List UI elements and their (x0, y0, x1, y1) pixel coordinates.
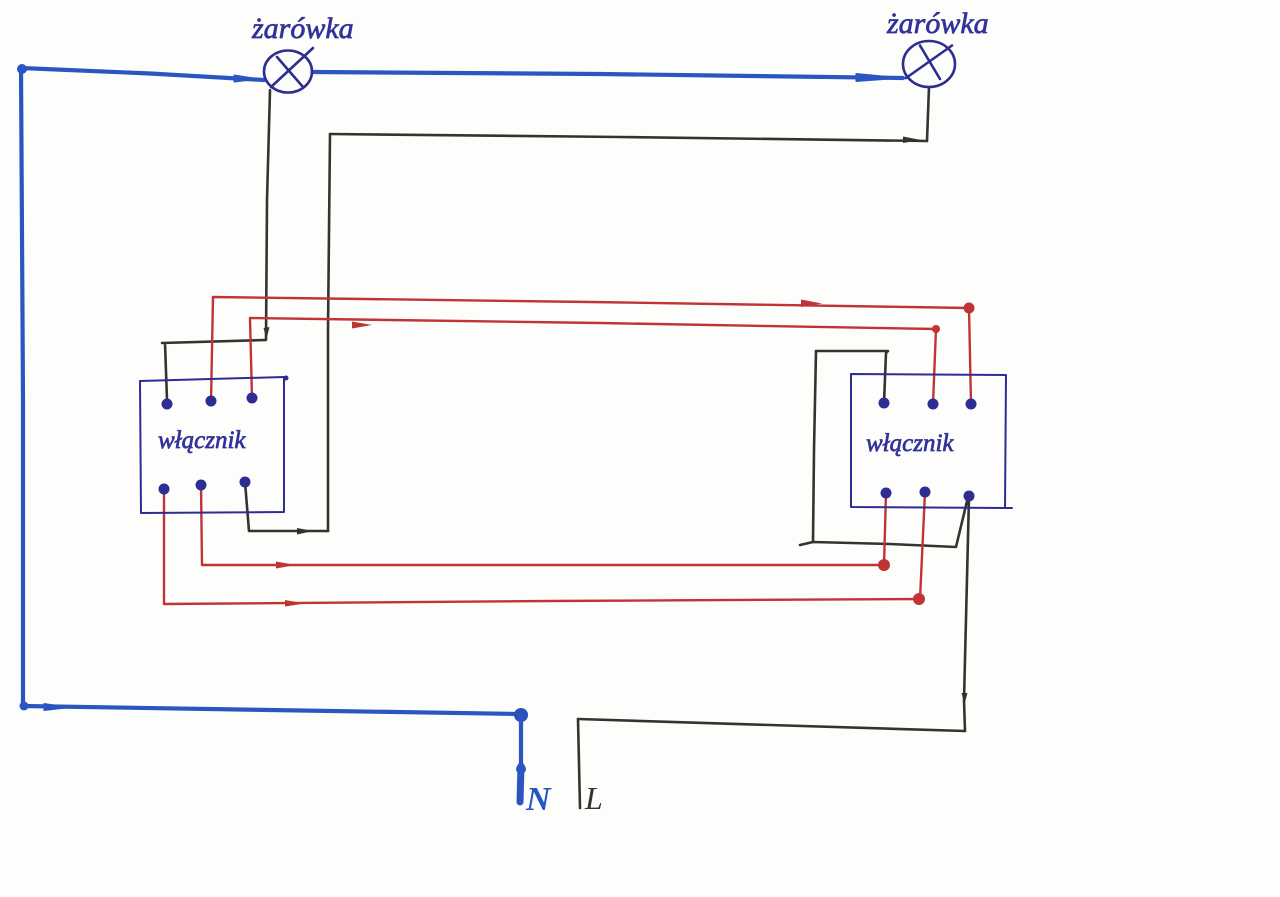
wire black: lamp E1 drop (264, 90, 271, 339)
lamp E1 symbol (264, 48, 313, 93)
wire L black: terminal stub vertical (578, 719, 580, 808)
wire red: S1 T3 up, across, down to S2 T2 (250, 318, 936, 404)
wire N blue: left vertical (21, 68, 23, 705)
node red junction at S2 T3 corner (964, 303, 975, 314)
switch S2 terminal B3 (964, 491, 975, 502)
switch S2 terminal B1 (881, 488, 892, 499)
wire black: long horizontal from E2 to mid riser (330, 134, 927, 143)
svg-text:żarówka: żarówka (886, 7, 989, 40)
switch S1 terminal T1 (162, 399, 173, 410)
wire black: mid riser x=330 down (328, 134, 330, 531)
switch S2 terminal T2 (928, 399, 939, 410)
wire black: bottom-left link to switch S1 terminal 6 (245, 482, 328, 535)
svg-text:włącznik: włącznik (158, 427, 246, 454)
wire black: link to switch S1 terminal 1 (162, 340, 266, 400)
wire N blue: left feed horizontal to lamp E1 (21, 68, 264, 82)
wire L black: bottom horizontal to right riser (578, 719, 965, 731)
wire L black: right riser up to switch S2 bottom-right terminal (962, 497, 970, 731)
switch S1 terminal B2 (196, 480, 207, 491)
wire red: S1 B2 down, across, up to S2 B1 (201, 485, 886, 569)
switch S2 box (851, 374, 1012, 508)
node N junction dot (514, 708, 528, 722)
node S1 box corner dot (284, 376, 289, 381)
switch S1 terminal B3 (240, 477, 251, 488)
wire black: switch S2 loop top (816, 351, 888, 403)
switch S1 box (140, 377, 284, 513)
switch S1 terminal T2 (206, 396, 217, 407)
switch S1 terminal B1 (159, 484, 170, 495)
switch S2 terminal T3 (966, 399, 977, 410)
svg-text:żarówka: żarówka (251, 12, 354, 45)
wire red: S1 B1 down, across bottom, up to S2 B2 (164, 489, 925, 607)
node red junction at S2 T2 corner (932, 325, 940, 333)
node red junction at S2 B1 corner (878, 559, 890, 571)
switch S1 terminal T3 (247, 393, 258, 404)
node red junction lower-right (913, 593, 925, 605)
lamp E2 symbol (903, 41, 955, 87)
wire black: switch S2 loop left vertical (813, 351, 816, 541)
wire red: S1 T2 up, across, down to S2 T3 (211, 297, 971, 404)
svg-text:N: N (525, 781, 552, 818)
svg-text:włącznik: włącznik (866, 430, 954, 457)
wire N blue: drop to N terminal with arrowhead (516, 715, 526, 802)
wire black: lamp E2 drop (927, 87, 929, 141)
node blue corner blob (17, 64, 27, 74)
wire N blue: bottom horizontal (20, 702, 521, 715)
wire N blue: lamp E1 to lamp E2 (313, 72, 903, 82)
svg-text:L: L (584, 780, 603, 816)
wire black: switch S2 loop bottom and diagonal to terminal 6 (800, 497, 968, 547)
switch S2 terminal T1 (879, 398, 890, 409)
switch S2 terminal B2 (920, 487, 931, 498)
